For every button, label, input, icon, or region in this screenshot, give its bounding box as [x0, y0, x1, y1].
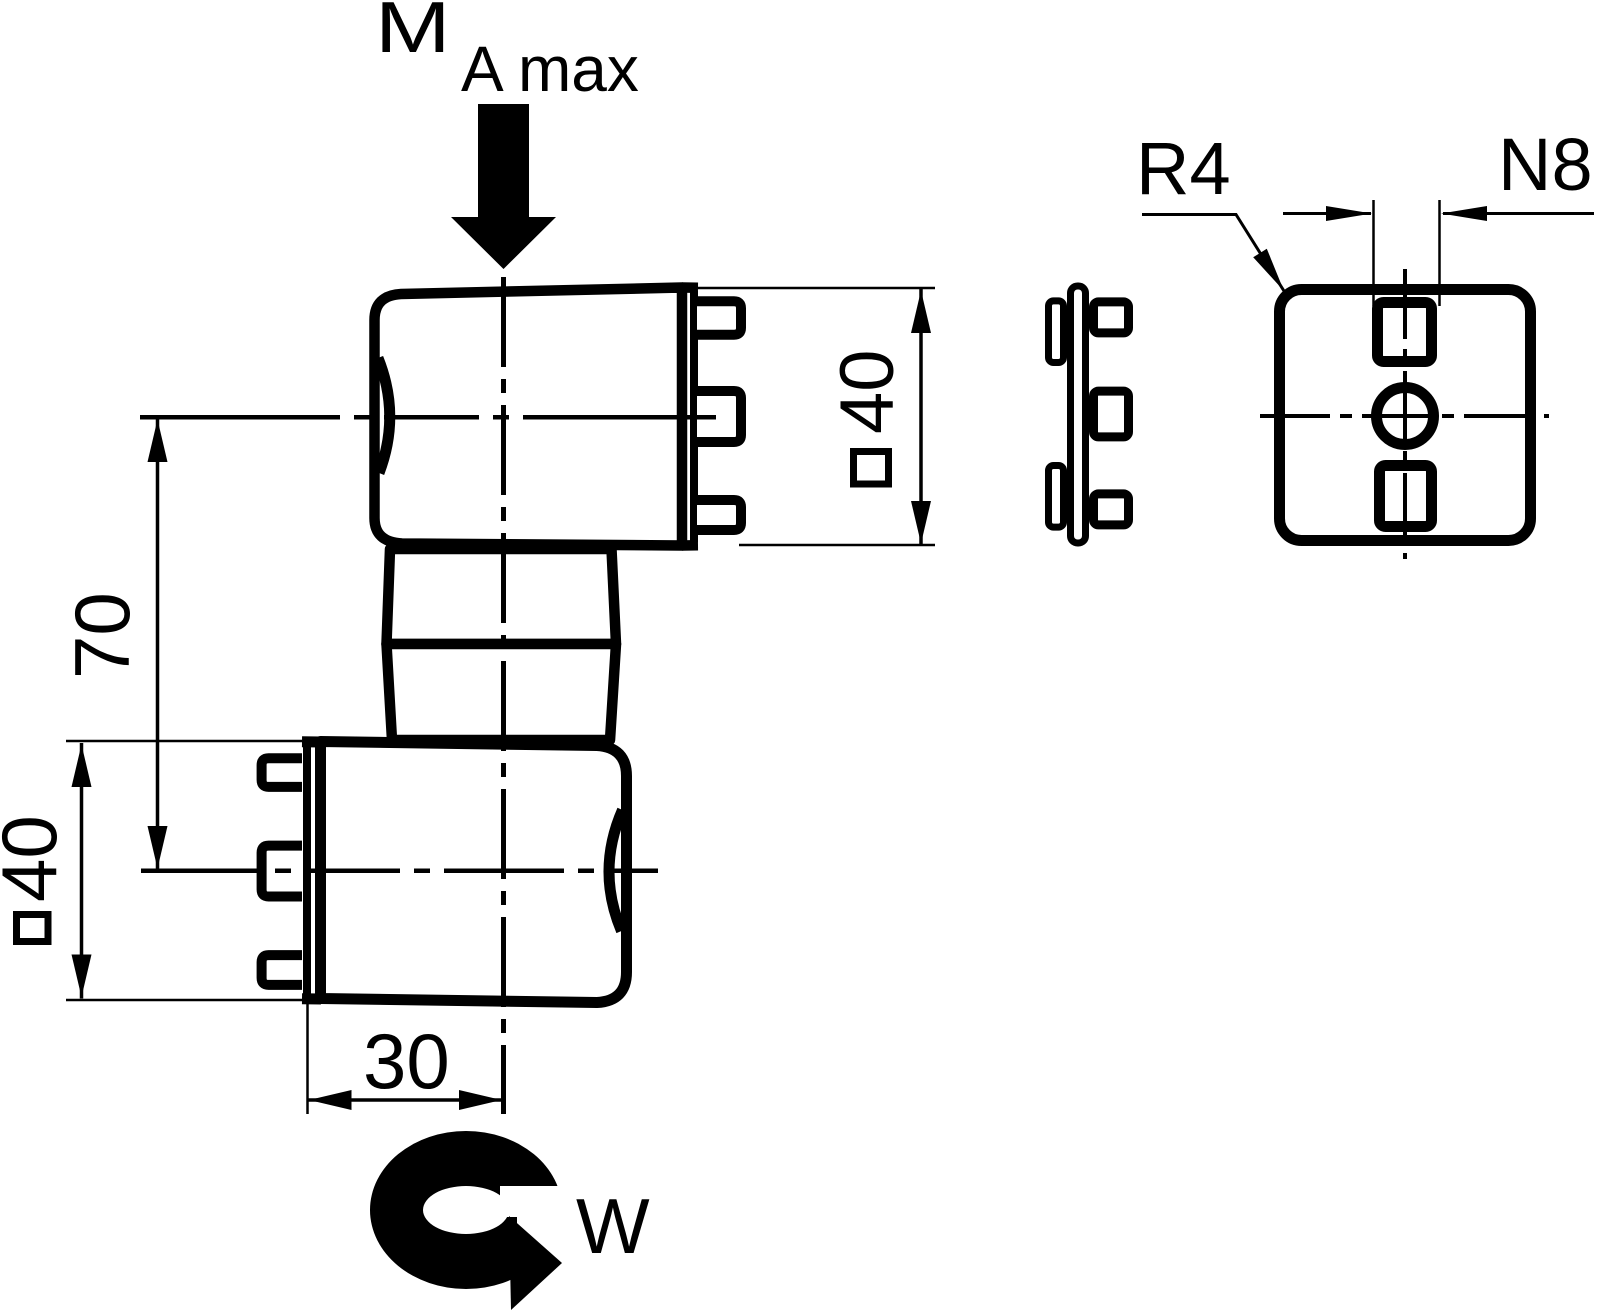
svg-text:40: 40 — [825, 349, 910, 434]
svg-text:R4: R4 — [1136, 127, 1231, 210]
svg-text:40: 40 — [0, 815, 73, 902]
svg-text:A max: A max — [461, 33, 639, 105]
svg-text:N8: N8 — [1498, 123, 1593, 206]
svg-text:70: 70 — [58, 592, 146, 679]
svg-text:30: 30 — [363, 1017, 450, 1105]
svg-text:M: M — [375, 0, 451, 68]
svg-text:W: W — [576, 1182, 650, 1270]
